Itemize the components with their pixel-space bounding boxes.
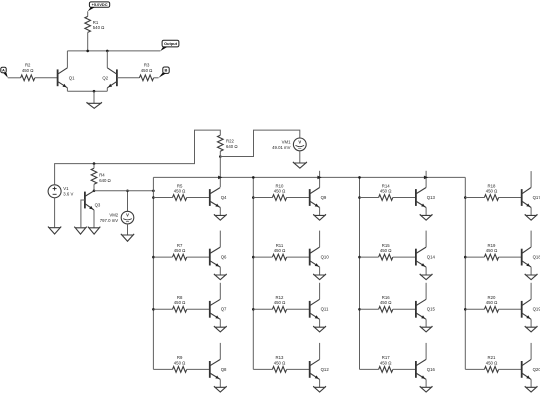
node R1/rail junction xyxy=(86,50,89,53)
wire column bus 3 xyxy=(359,177,361,369)
wire base distribution rail xyxy=(153,176,465,178)
transistor Q9 xyxy=(310,188,327,208)
wire Q18 emitter drop xyxy=(530,267,532,275)
wire emitter bus xyxy=(67,90,107,92)
resistor R2 450 xyxy=(21,63,35,81)
wire Q1 collector riser xyxy=(66,51,68,68)
resistor R21 450 xyxy=(484,355,498,372)
wire Q6 emitter drop xyxy=(219,267,221,275)
node R4 top junction xyxy=(93,162,96,165)
svg-text:450 Ω: 450 Ω xyxy=(22,68,34,73)
wire V+ to R1 xyxy=(87,11,89,16)
wire row col4 row2 to R19 xyxy=(465,256,484,258)
transistor Q11 xyxy=(310,299,329,319)
svg-text:450 Ω: 450 Ω xyxy=(380,360,392,365)
ground (VM1) xyxy=(293,162,307,168)
wire Q1 emitter drop xyxy=(66,88,68,91)
wire Q3 base to ground xyxy=(81,200,85,227)
svg-text:VM2: VM2 xyxy=(109,213,118,218)
svg-text:Q12: Q12 xyxy=(321,367,330,372)
wire row col2 row4 to R13 xyxy=(253,368,272,370)
wire R4 top stub xyxy=(93,164,95,169)
ground (Q12 emitter) xyxy=(313,386,326,392)
wire R7 to Q6 base xyxy=(187,256,210,258)
transistor Q13 xyxy=(416,188,436,208)
svg-text:Q9: Q9 xyxy=(321,195,327,200)
svg-text:V: V xyxy=(126,213,129,218)
node Q2 collector/rail junction xyxy=(106,50,109,53)
resistor R17 450 xyxy=(379,355,393,372)
wire Q8 emitter drop xyxy=(219,379,221,387)
transistor Q3 xyxy=(85,191,101,210)
wire V1 to ground xyxy=(54,198,56,228)
wire V1 top to R22 top xyxy=(55,130,221,185)
wire Q10 emitter drop xyxy=(319,267,321,275)
node VM2 tap xyxy=(126,190,129,193)
wire R20 to Q19 base xyxy=(499,308,522,310)
wire R22 to VM1 xyxy=(220,130,299,156)
wire row col4 row1 to R18 xyxy=(465,197,484,199)
svg-text:797.0 mV: 797.0 mV xyxy=(100,218,119,223)
wire VM1 to ground xyxy=(299,151,301,163)
wire Q19 collector stub xyxy=(530,283,532,300)
node bus/row junction col3 row3 xyxy=(358,308,361,311)
wire Q2 collector riser xyxy=(106,51,108,68)
wire Q3 emitter to ground xyxy=(93,210,95,228)
junction arrow (collector-to-rail tie) xyxy=(317,176,321,180)
wire Q13 collector riser xyxy=(425,171,427,188)
wire row col1 row1 to R5 xyxy=(153,197,172,199)
node bus/row junction col3 row1 xyxy=(358,196,361,199)
wire row col3 row2 to R15 xyxy=(360,256,379,258)
ground (VM2) xyxy=(121,234,134,242)
transistor Q14 xyxy=(416,247,436,267)
resistor R1 xyxy=(85,16,105,32)
resistor R11 450 xyxy=(272,243,286,260)
ground (Q17 emitter) xyxy=(525,214,538,220)
resistor R10 450 xyxy=(272,183,286,200)
wire R22 to Q4 collector (crosses rail) xyxy=(219,157,221,188)
node array feed junction xyxy=(152,190,155,193)
transistor Q17 xyxy=(522,188,540,208)
wire R3 to B xyxy=(154,77,159,79)
ground (Q14 emitter) xyxy=(420,274,433,280)
wire Q12 collector stub xyxy=(319,343,321,360)
svg-text:450 Ω: 450 Ω xyxy=(274,300,286,305)
svg-text:Q15: Q15 xyxy=(427,307,436,312)
transistor Q7 xyxy=(210,299,227,319)
svg-text:R4: R4 xyxy=(99,173,105,178)
output label Output xyxy=(160,40,179,51)
wire R16 to Q15 base xyxy=(393,308,416,310)
junction arrow (collector-to-rail tie) xyxy=(218,176,222,180)
ground (Q3 base) xyxy=(74,227,86,235)
node bus/row junction col1 row2 xyxy=(152,256,155,259)
wire R14 to Q13 base xyxy=(393,197,416,199)
wire bias node to transistor array xyxy=(94,190,153,192)
ground (Q9 emitter) xyxy=(313,214,326,220)
svg-text:Q4: Q4 xyxy=(221,195,227,200)
svg-text:450 Ω: 450 Ω xyxy=(486,188,498,193)
ground (Q8 emitter) xyxy=(214,386,227,392)
ground (Q7 emitter) xyxy=(214,326,227,332)
wire Q2 base to R3 xyxy=(117,77,139,79)
svg-text:Q3: Q3 xyxy=(95,202,101,207)
svg-text:B: B xyxy=(165,68,168,73)
wire VM2 riser xyxy=(127,191,129,211)
wire row col2 row2 to R11 xyxy=(253,256,272,258)
node bus/row junction col1 row3 xyxy=(152,308,155,311)
wire column bus 2 xyxy=(252,177,254,369)
svg-text:450 Ω: 450 Ω xyxy=(486,360,498,365)
ground (Q13 emitter) xyxy=(420,214,433,220)
svg-text:450 Ω: 450 Ω xyxy=(274,248,286,253)
svg-text:R1: R1 xyxy=(93,20,99,25)
resistor R19 450 xyxy=(484,243,498,260)
svg-text:Q11: Q11 xyxy=(321,307,329,312)
wire Q11 emitter drop xyxy=(319,319,321,327)
ground (Q6 emitter) xyxy=(214,274,227,280)
wire A to R2 xyxy=(8,77,21,79)
node bus/row junction col2 row1 xyxy=(252,196,255,199)
svg-text:450 Ω: 450 Ω xyxy=(141,68,153,73)
wire Q13 emitter drop xyxy=(425,208,427,216)
wire Q15 collector stub xyxy=(425,283,427,300)
wire R9 to Q8 base xyxy=(187,368,210,370)
node bias node (R4/Q3) xyxy=(93,190,96,193)
wire column bus 4 xyxy=(464,177,466,369)
voltage source V1 3.6 V xyxy=(48,185,73,198)
svg-text:Output: Output xyxy=(164,41,178,46)
wire R5 to Q4 base xyxy=(187,197,210,199)
resistor R15 450 xyxy=(379,243,393,260)
transistor Q8 xyxy=(210,359,227,379)
wire R11 to Q10 base xyxy=(287,256,310,258)
svg-text:Q18: Q18 xyxy=(533,255,540,260)
wire row col1 row4 to R9 xyxy=(153,368,172,370)
svg-text:Q17: Q17 xyxy=(533,195,540,200)
svg-text:A: A xyxy=(2,68,5,73)
resistor R18 450 xyxy=(484,183,498,200)
svg-text:450 Ω: 450 Ω xyxy=(380,188,392,193)
resistor R22 640 xyxy=(218,135,239,151)
ground (Q10 emitter) xyxy=(313,274,326,280)
wire Q7 collector stub xyxy=(219,283,221,300)
wire row col3 row1 to R14 xyxy=(360,197,379,199)
transistor Q12 xyxy=(310,359,330,379)
wire column bus 1 xyxy=(152,177,154,369)
resistor R13 450 xyxy=(272,355,286,372)
transistor Q15 xyxy=(416,299,436,319)
wire row col1 row2 to R7 xyxy=(153,256,172,258)
transistor Q16 xyxy=(416,359,436,379)
wire collector rail to Output xyxy=(67,50,160,52)
resistor R9 450 xyxy=(173,355,187,372)
wire Q12 emitter drop xyxy=(319,379,321,387)
node bus/row junction col2 row3 xyxy=(252,308,255,311)
svg-text:450 Ω: 450 Ω xyxy=(174,300,186,305)
transistor Q20 xyxy=(522,359,540,379)
wire row col2 row1 to R10 xyxy=(253,197,272,199)
node R22 bottom xyxy=(219,155,222,158)
svg-text:R22: R22 xyxy=(226,139,234,144)
svg-text:Q14: Q14 xyxy=(427,255,436,260)
transistor Q1 xyxy=(58,68,76,88)
transistor Q6 xyxy=(210,247,227,267)
svg-text:450 Ω: 450 Ω xyxy=(486,248,498,253)
ground (Q20 emitter) xyxy=(525,386,538,392)
wire R8 to Q7 base xyxy=(187,308,210,310)
wire R12 to Q11 base xyxy=(287,308,310,310)
wire R1 to output rail xyxy=(87,32,89,51)
input label A xyxy=(1,67,8,78)
transistor Q2 xyxy=(102,68,117,88)
wire Q16 collector stub xyxy=(425,343,427,360)
svg-text:+5.0VDC: +5.0VDC xyxy=(92,2,108,7)
wire Q17 collector riser xyxy=(530,171,532,187)
wire Q7 emitter drop xyxy=(219,319,221,327)
wire Q14 collector stub xyxy=(425,231,427,248)
voltmeter VM2 797.0 mV xyxy=(100,211,134,224)
svg-text:540 Ω: 540 Ω xyxy=(93,25,105,30)
wire row col1 row3 to R8 xyxy=(153,308,172,310)
node bus/row junction col1 row1 xyxy=(152,196,155,199)
node rail/bus junction xyxy=(358,176,361,179)
wire row col3 row3 to R16 xyxy=(360,308,379,310)
svg-text:Q1: Q1 xyxy=(69,76,75,81)
input label B xyxy=(159,67,170,78)
wire R19 to Q18 base xyxy=(499,256,522,258)
wire Q9 emitter drop xyxy=(319,208,321,216)
wire Q8 collector stub xyxy=(219,343,221,360)
ground (V1) xyxy=(48,227,61,235)
svg-text:Q7: Q7 xyxy=(221,307,227,312)
resistor R20 450 xyxy=(484,295,498,312)
wire row col3 row4 to R17 xyxy=(360,368,379,370)
svg-text:Q8: Q8 xyxy=(221,367,227,372)
ground (Q4 emitter) xyxy=(214,214,227,220)
resistor R16 450 xyxy=(379,295,393,312)
svg-text:Q6: Q6 xyxy=(221,255,227,260)
svg-text:450 Ω: 450 Ω xyxy=(174,248,186,253)
resistor R8 450 xyxy=(173,295,187,312)
svg-text:V: V xyxy=(298,140,301,145)
wire R10 to Q9 base xyxy=(287,197,310,199)
svg-text:450 Ω: 450 Ω xyxy=(380,248,392,253)
node bus/row junction col3 row2 xyxy=(358,256,361,259)
resistor R4 640 xyxy=(91,168,111,184)
wire Q16 emitter drop xyxy=(425,379,427,387)
transistor Q18 xyxy=(522,247,540,267)
wire Q15 emitter drop xyxy=(425,319,427,327)
wire R22 bottom stub xyxy=(219,151,221,156)
wire R2 to Q1 base xyxy=(35,77,58,79)
wire to ground xyxy=(93,91,95,103)
power label +5.0VDC xyxy=(88,2,110,11)
wire Q20 collector stub xyxy=(530,343,532,360)
wire row col4 row4 to R21 xyxy=(465,368,484,370)
resistor R3 450 xyxy=(139,63,153,81)
node bus/row junction col4 row2 xyxy=(464,256,467,259)
wire Q17 emitter drop xyxy=(530,208,532,216)
svg-text:450 Ω: 450 Ω xyxy=(174,188,186,193)
junction arrow (collector-to-rail tie) xyxy=(424,176,428,180)
wire Q14 emitter drop xyxy=(425,267,427,275)
node bus/row junction col4 row1 xyxy=(464,196,467,199)
resistor R7 450 xyxy=(173,243,187,260)
svg-text:450 Ω: 450 Ω xyxy=(380,300,392,305)
svg-text:Q16: Q16 xyxy=(427,367,436,372)
resistor R5 450 xyxy=(173,183,187,200)
svg-text:Q19: Q19 xyxy=(533,307,540,312)
svg-text:450 Ω: 450 Ω xyxy=(486,300,498,305)
resistor R12 450 xyxy=(272,295,286,312)
svg-text:450 Ω: 450 Ω xyxy=(174,360,186,365)
svg-text:VM1: VM1 xyxy=(282,140,291,145)
voltmeter VM1 49.01 mV xyxy=(272,138,306,151)
svg-text:Q2: Q2 xyxy=(102,76,108,81)
wire row col4 row3 to R20 xyxy=(465,308,484,310)
wire R17 to Q16 base xyxy=(393,368,416,370)
svg-text:Q13: Q13 xyxy=(427,195,436,200)
node bus/row junction col2 row2 xyxy=(252,256,255,259)
svg-text:640 Ω: 640 Ω xyxy=(226,144,238,149)
svg-text:640 Ω: 640 Ω xyxy=(99,178,111,183)
resistor R14 450 xyxy=(379,183,393,200)
wire Q2 emitter drop xyxy=(106,88,108,91)
wire R18 to Q17 base xyxy=(499,197,522,199)
node bus/row junction col4 row3 xyxy=(464,308,467,311)
wire Q20 emitter drop xyxy=(530,379,532,387)
wire R4 bottom stub xyxy=(93,184,95,191)
transistor Q19 xyxy=(522,299,540,319)
ground (Q16 emitter) xyxy=(420,386,433,392)
wire VM2 to ground xyxy=(127,224,129,235)
ground (Q18 emitter) xyxy=(525,274,538,280)
svg-text:49.01 mV: 49.01 mV xyxy=(272,145,291,150)
ground (Q15 emitter) xyxy=(420,326,433,332)
ground (Q11 emitter) xyxy=(313,326,326,332)
node emitter/ground junction xyxy=(93,90,96,93)
wire Q4 emitter drop xyxy=(219,208,221,216)
svg-text:Q10: Q10 xyxy=(321,255,330,260)
svg-text:Q20: Q20 xyxy=(533,367,540,372)
wire row col2 row3 to R12 xyxy=(253,308,272,310)
wire R21 to Q20 base xyxy=(499,368,522,370)
svg-text:450 Ω: 450 Ω xyxy=(274,360,286,365)
svg-text:V1: V1 xyxy=(63,186,69,191)
ground (Q3 emitter) xyxy=(88,227,100,235)
wire Q10 collector stub xyxy=(319,231,321,248)
wire Q18 collector stub xyxy=(530,231,532,248)
node rail/bus junction xyxy=(252,176,255,179)
wire Q11 collector stub xyxy=(319,283,321,300)
svg-text:450 Ω: 450 Ω xyxy=(274,188,286,193)
transistor Q10 xyxy=(310,247,330,267)
wire R13 to Q12 base xyxy=(287,368,310,370)
wire Q19 emitter drop xyxy=(530,319,532,327)
svg-text:3.6 V: 3.6 V xyxy=(63,192,73,197)
transistor Q4 xyxy=(210,188,227,208)
wire Q6 collector stub xyxy=(219,231,221,248)
wire Q9 collector riser xyxy=(319,171,321,188)
ground (Q19 emitter) xyxy=(525,326,538,332)
ground (diff pair) xyxy=(87,102,102,108)
wire R15 to Q14 base xyxy=(393,256,416,258)
